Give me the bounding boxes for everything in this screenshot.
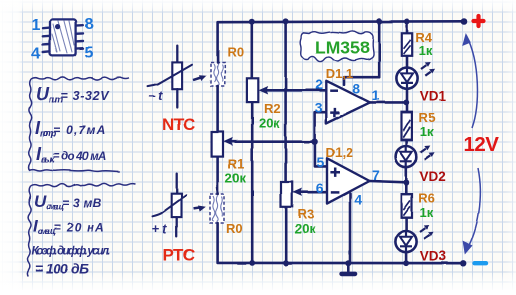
svg-text:1: 1 (372, 87, 380, 103)
svg-text:6: 6 (316, 180, 324, 196)
svg-text:D1,2: D1,2 (326, 145, 353, 160)
svg-text:Коэф. дифф. усил.: Коэф. дифф. усил. (32, 246, 111, 258)
svg-text:R5: R5 (419, 110, 436, 125)
svg-text:5: 5 (85, 45, 94, 62)
svg-text:R3: R3 (298, 207, 315, 222)
svg-text:R0: R0 (227, 45, 244, 60)
svg-text:20к: 20к (225, 171, 246, 186)
svg-text:5: 5 (317, 154, 325, 170)
svg-text:1: 1 (32, 17, 41, 34)
svg-text:20к: 20к (259, 115, 280, 130)
svg-text:8: 8 (85, 16, 94, 33)
svg-text:R6: R6 (418, 190, 435, 205)
svg-text:NTC: NTC (162, 115, 195, 134)
svg-text:1к: 1к (419, 43, 433, 58)
svg-text:D1,1: D1,1 (326, 66, 353, 81)
svg-text:PTC: PTC (163, 246, 195, 265)
svg-text:20к: 20к (295, 221, 316, 236)
svg-text:LM358: LM358 (315, 38, 370, 58)
svg-text:2: 2 (315, 76, 323, 92)
svg-text:12V: 12V (464, 133, 500, 156)
svg-text:4: 4 (32, 46, 41, 63)
svg-text:R0: R0 (226, 221, 243, 236)
svg-text:1к: 1к (420, 124, 434, 139)
svg-text:8: 8 (353, 81, 361, 97)
svg-text:1к: 1к (420, 205, 434, 220)
svg-text:3: 3 (315, 100, 323, 116)
svg-text:4: 4 (354, 192, 362, 208)
svg-text:R2: R2 (264, 101, 281, 116)
svg-text:R1: R1 (228, 157, 245, 172)
svg-text:= 100 дБ: = 100 дБ (35, 261, 89, 277)
svg-text:VD3: VD3 (420, 249, 447, 264)
svg-text:7: 7 (372, 167, 380, 183)
svg-text:VD1: VD1 (420, 89, 447, 104)
svg-text:VD2: VD2 (420, 169, 446, 184)
